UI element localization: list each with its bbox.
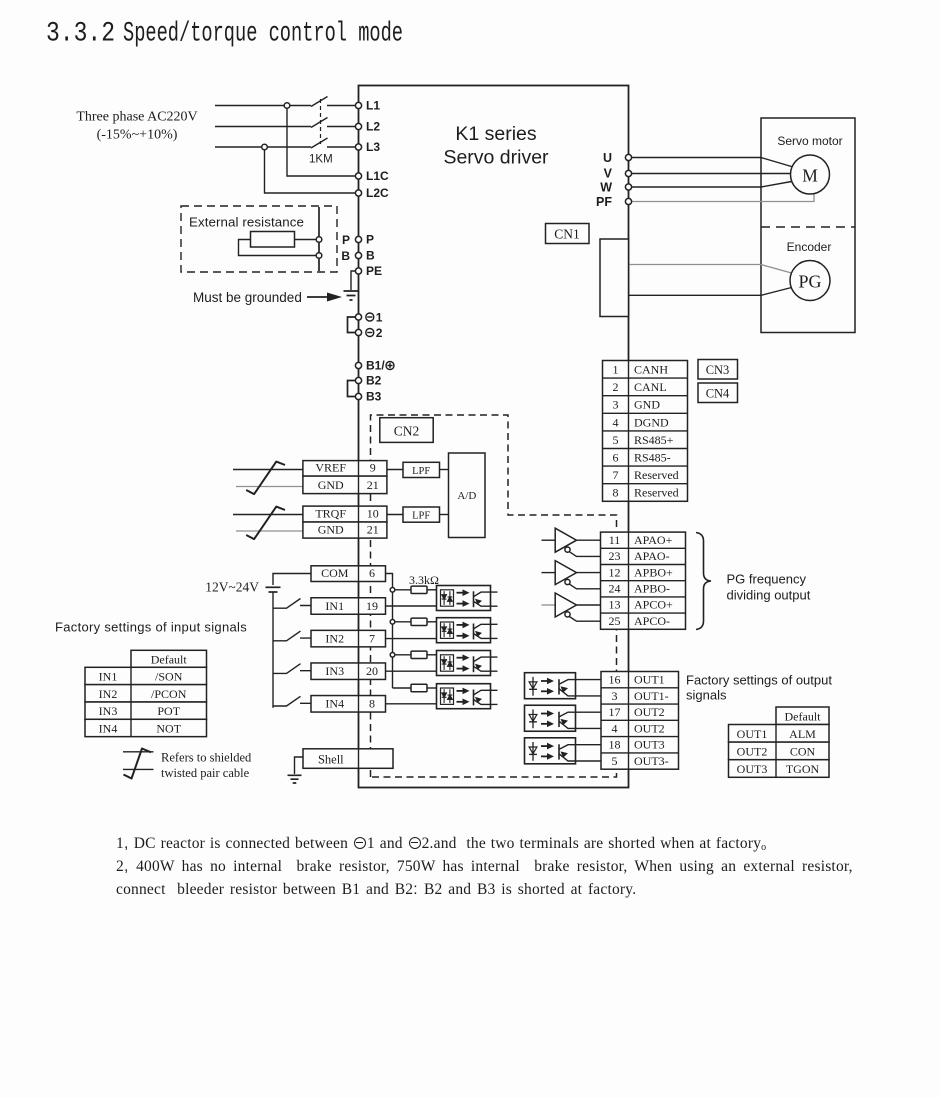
pin row 18 OUT3 <box>601 736 679 738</box>
svg-text:TRQF: TRQF <box>315 507 346 521</box>
wire IN4 to opto <box>386 703 437 705</box>
svg-text:COM: COM <box>321 566 349 580</box>
svg-text:GND: GND <box>318 523 344 537</box>
svg-text:L2: L2 <box>366 120 380 134</box>
svg-text:(-15%~+10%): (-15%~+10%) <box>97 128 178 143</box>
pin row 7 Reserved <box>603 465 688 467</box>
svg-text:CANL: CANL <box>634 380 667 394</box>
pin row Shell <box>303 749 393 769</box>
svg-text:7: 7 <box>369 631 375 645</box>
svg-text:OUT2: OUT2 <box>634 705 665 719</box>
svg-text:OUT1: OUT1 <box>634 673 665 687</box>
pin row IN3 20 <box>311 663 386 680</box>
svg-text:Refers to shielded: Refers to shielded <box>161 751 252 765</box>
A/D converter box <box>449 453 486 538</box>
wire TRQF to LPF2 <box>387 514 403 516</box>
pin row 17 OUT2 <box>601 703 679 705</box>
svg-text:M: M <box>802 166 818 186</box>
COM feed bus right <box>386 574 393 689</box>
svg-text:16: 16 <box>609 673 621 687</box>
svg-text:B: B <box>341 249 350 263</box>
pin row IN4 8 <box>311 696 386 713</box>
wire driver- to pin <box>569 617 600 622</box>
svg-text:21: 21 <box>367 478 379 492</box>
svg-text:IN1: IN1 <box>99 670 118 684</box>
earth ground symbol <box>344 291 359 300</box>
terminal V <box>625 170 631 176</box>
svg-text:DGND: DGND <box>634 415 669 429</box>
svg-text:1KM: 1KM <box>309 154 333 166</box>
wire IN1 to opto <box>386 605 437 607</box>
optocoupler input #4 <box>437 684 491 709</box>
wire to resistor 4 <box>393 687 412 689</box>
svg-text:CANH: CANH <box>634 363 668 377</box>
terminal circle <box>355 236 361 242</box>
terminal W <box>625 184 631 190</box>
servo motor box <box>761 118 855 333</box>
optocoupler input #2 <box>437 618 491 643</box>
junction node on phase R <box>284 103 290 109</box>
svg-text:APAO+: APAO+ <box>634 533 673 547</box>
svg-text:L1C: L1C <box>366 169 389 183</box>
pin row IN1 19 <box>311 598 386 615</box>
wire U phase <box>629 158 792 167</box>
pin row 24 APBO- <box>601 580 686 582</box>
terminal circle <box>355 377 361 383</box>
optocoupler output #2 <box>525 705 576 731</box>
svg-text:V: V <box>604 167 613 181</box>
svg-text:OUT2: OUT2 <box>737 744 768 758</box>
svg-text:NOT: NOT <box>156 722 181 736</box>
svg-text:P: P <box>342 233 350 247</box>
svg-text:OUT2: OUT2 <box>634 721 665 735</box>
svg-text:24: 24 <box>609 582 621 596</box>
default row IN4 NOT <box>85 719 207 736</box>
wire driver+ to pin <box>577 539 601 541</box>
svg-text:12V~24V: 12V~24V <box>205 580 259 595</box>
wire: phase S to contactor <box>215 126 311 128</box>
resistor 3.3k #3 <box>411 651 427 658</box>
pin row 4 DGND <box>603 412 688 414</box>
default row IN3 POT <box>85 702 207 719</box>
svg-text:twisted pair cable: twisted pair cable <box>161 766 250 780</box>
default row OUT2 CON <box>729 742 830 760</box>
divider dashed in motor box <box>761 226 855 228</box>
svg-text:6: 6 <box>613 451 619 465</box>
wires opto3 to pins <box>576 745 602 761</box>
junction node <box>390 588 395 593</box>
svg-text:P: P <box>366 233 374 247</box>
svg-text:10: 10 <box>367 507 379 521</box>
opto output stubs #4 <box>491 690 498 704</box>
terminal circle <box>355 329 361 335</box>
svg-text:6: 6 <box>369 566 375 580</box>
svg-text:CN3: CN3 <box>706 363 730 377</box>
svg-text:18: 18 <box>609 738 621 752</box>
analog input wire TRQF <box>233 514 303 516</box>
svg-text:TGON: TGON <box>786 762 820 776</box>
svg-text:APCO+: APCO+ <box>634 598 673 612</box>
terminal circle <box>355 102 361 108</box>
svg-text:12: 12 <box>609 565 621 579</box>
wire driver- to pin <box>569 584 600 589</box>
wire: resistor left to B terminal <box>239 240 320 256</box>
line driver input wire 3 <box>542 604 556 606</box>
svg-text:Encoder: Encoder <box>787 240 832 254</box>
svg-text:2: 2 <box>613 380 619 394</box>
svg-text:OUT1-: OUT1- <box>634 689 669 703</box>
curly brace PG outputs <box>696 533 711 630</box>
wire to resistor 1 <box>395 589 411 591</box>
legend twisted pair symbol <box>123 752 154 770</box>
default row OUT3 TGON <box>729 760 830 778</box>
terminal circle <box>355 362 361 368</box>
wire resistor to opto 2 <box>427 621 437 623</box>
svg-text:/PCON: /PCON <box>151 687 187 701</box>
svg-text:L3: L3 <box>366 140 380 154</box>
svg-text:/SON: /SON <box>155 670 183 684</box>
supply bus down <box>272 592 274 708</box>
svg-text:ALM: ALM <box>789 727 816 741</box>
LPF box 1 <box>403 462 440 477</box>
svg-text:Speed/torque control mode: Speed/torque control mode <box>123 19 403 50</box>
svg-text:L1: L1 <box>366 99 380 113</box>
svg-text:3.3kΩ: 3.3kΩ <box>409 573 439 587</box>
label circled-plus for B1 <box>386 362 394 370</box>
pin row GND2 21 <box>303 522 387 538</box>
svg-text:U: U <box>603 151 612 165</box>
svg-text:3: 3 <box>612 689 618 703</box>
pin row 2 CANL <box>603 377 688 379</box>
svg-text:PF: PF <box>596 195 612 209</box>
CN2 dashed boundary region <box>371 415 617 777</box>
svg-text:OUT1: OUT1 <box>737 727 768 741</box>
CN1 connector block on edge <box>600 239 629 317</box>
inversion bubble <box>565 547 570 552</box>
pin row 23 APAO- <box>601 547 686 549</box>
terminal circle <box>355 144 361 150</box>
wire resistor to opto 1 <box>427 589 437 591</box>
wire: phase T to contactor <box>215 146 311 148</box>
wire V phase <box>629 173 791 175</box>
svg-text:LPF: LPF <box>412 511 430 522</box>
switch for IN4 <box>273 696 311 706</box>
svg-text:3: 3 <box>613 398 619 412</box>
pin row 8 Reserved <box>603 483 688 485</box>
svg-text:OUT3-: OUT3- <box>634 754 669 768</box>
svg-text:Shell: Shell <box>318 753 344 767</box>
contactor 1KM pole 3 <box>311 138 359 148</box>
pin row 4 OUT2 <box>601 719 679 721</box>
terminal circle <box>355 252 361 258</box>
svg-text:dividing output: dividing output <box>727 588 811 603</box>
input default table header <box>131 650 207 667</box>
wires opto2 to pins <box>576 712 602 728</box>
svg-text:RS485-: RS485- <box>634 451 671 465</box>
arrow to ground <box>307 296 328 298</box>
pin row 12 APBO+ <box>601 564 686 566</box>
optocoupler input #1 <box>437 586 491 611</box>
wire PF (grey) <box>629 194 815 202</box>
svg-text:W: W <box>600 181 612 195</box>
resistor (external bleeder) <box>251 232 295 248</box>
encoder wire bottom <box>629 288 792 296</box>
contactor linkage dashed <box>320 99 322 144</box>
wire driver+ to pin <box>577 572 601 574</box>
svg-text:8: 8 <box>613 486 619 500</box>
inversion bubble <box>565 612 570 617</box>
svg-text:B3: B3 <box>366 390 382 404</box>
earth ground symbol shell <box>288 775 302 783</box>
wire shell to earth <box>295 757 304 774</box>
svg-text:OUT3: OUT3 <box>737 762 768 776</box>
pin row VREF 9 <box>303 461 387 477</box>
node P on link <box>316 237 322 243</box>
svg-text:Servo driver: Servo driver <box>443 147 549 169</box>
pin row COM 6 <box>311 566 386 582</box>
line driver triangle 3 <box>555 593 576 617</box>
svg-text:L2C: L2C <box>366 186 389 200</box>
CN3 box <box>698 360 738 380</box>
svg-text:IN4: IN4 <box>99 722 118 736</box>
svg-text:3.3.2: 3.3.2 <box>46 19 115 50</box>
external resistance dashed box <box>181 206 337 272</box>
pin row 5 OUT3- <box>601 752 679 754</box>
pin row 25 APCO- <box>601 612 686 614</box>
optocoupler output #3 <box>525 738 576 764</box>
svg-text:1: 1 <box>376 311 383 325</box>
opto output stubs #1 <box>491 592 498 606</box>
svg-text:RS485+: RS485+ <box>634 433 674 447</box>
line driver input wire 2 <box>542 572 556 574</box>
wire to resistor 2 <box>395 621 411 623</box>
wire IN3 to opto <box>386 670 437 672</box>
svg-text:13: 13 <box>609 598 621 612</box>
svg-text:B2: B2 <box>366 374 382 388</box>
svg-text:11: 11 <box>609 533 621 547</box>
svg-text:APCO-: APCO- <box>634 614 670 628</box>
wire: L2C tap from phase T <box>265 147 359 193</box>
svg-text:Three phase AC220V: Three phase AC220V <box>76 110 197 125</box>
svg-text:IN4: IN4 <box>325 697 344 711</box>
svg-text:VREF: VREF <box>315 461 346 475</box>
wire W phase <box>629 182 792 188</box>
output default table <box>776 707 829 725</box>
svg-text:9: 9 <box>370 461 376 475</box>
battery symbol <box>266 586 281 588</box>
junction node on phase T <box>262 144 268 150</box>
svg-text:GND: GND <box>634 398 660 412</box>
svg-text:APAO-: APAO- <box>634 549 670 563</box>
default row IN1 /SON <box>85 667 207 684</box>
wire: PE to earth <box>351 271 359 290</box>
default row IN2 /PCON <box>85 685 207 702</box>
jumper bracket theta1-theta2 <box>348 317 356 333</box>
svg-text:5: 5 <box>613 433 619 447</box>
svg-text:20: 20 <box>366 664 378 678</box>
svg-text:POT: POT <box>157 704 180 718</box>
label circled-minus 1 <box>366 313 374 321</box>
resistor 3.3k #2 <box>411 618 427 625</box>
wires opto1 to pins <box>576 680 602 696</box>
svg-text:IN3: IN3 <box>99 704 118 718</box>
analog input wire GND2 (grey) <box>236 530 303 532</box>
wire COM to battery <box>273 574 311 586</box>
svg-text:OUT3: OUT3 <box>634 738 665 752</box>
default row OUT1 ALM <box>729 725 830 743</box>
pin row TRQF 10 <box>303 506 387 522</box>
svg-text:19: 19 <box>366 599 378 613</box>
svg-text:Reserved: Reserved <box>634 468 679 482</box>
pin row 3 OUT1- <box>601 687 679 689</box>
wire resistor to opto 3 <box>427 654 437 656</box>
pin row 13 APCO+ <box>601 596 686 598</box>
svg-text:2: 2 <box>376 326 383 340</box>
svg-text:17: 17 <box>609 705 621 719</box>
wire: resistor right to P terminal <box>295 239 320 241</box>
svg-text:LPF: LPF <box>412 466 430 477</box>
svg-text:PG frequency: PG frequency <box>727 572 807 587</box>
analog input wire VREF <box>233 469 303 471</box>
twisted pair symbol 2 <box>246 507 285 539</box>
pin row 5 RS485+ <box>603 430 688 432</box>
svg-text:Servo motor: Servo motor <box>777 134 842 148</box>
svg-text:21: 21 <box>367 523 379 537</box>
wire LPF2 to A/D <box>440 514 449 516</box>
resistor 3.3k #1 <box>411 586 427 593</box>
node B on link <box>316 253 322 259</box>
switch for IN3 <box>273 664 311 674</box>
switch for IN1 <box>273 599 311 609</box>
svg-text:Must be grounded: Must be grounded <box>193 290 302 305</box>
svg-text:CN2: CN2 <box>394 424 420 439</box>
svg-text:8: 8 <box>369 697 375 711</box>
pin row IN2 7 <box>311 630 386 647</box>
wire: L1C tap from phase R <box>287 106 359 177</box>
svg-text:23: 23 <box>609 549 621 563</box>
svg-text:B: B <box>366 249 375 263</box>
svg-text:PG: PG <box>798 272 821 292</box>
svg-text:7: 7 <box>613 468 619 482</box>
svg-text:Factory settings of input sign: Factory settings of input signals <box>55 620 247 635</box>
label circled-minus 2 <box>366 329 374 337</box>
svg-text:1: 1 <box>613 363 619 377</box>
terminal circle <box>355 123 361 129</box>
terminal circle <box>355 190 361 196</box>
junction node <box>390 620 395 625</box>
svg-text:APBO-: APBO- <box>634 582 670 596</box>
motor circle M <box>791 155 830 194</box>
terminal circle <box>355 173 361 179</box>
svg-text:A/D: A/D <box>457 490 476 502</box>
svg-text:CN1: CN1 <box>554 227 580 242</box>
pin row GND 21 <box>303 476 387 494</box>
svg-text:APBO+: APBO+ <box>634 565 673 579</box>
pin row 3 GND <box>603 395 688 397</box>
junction node <box>390 653 395 658</box>
CN3/CN4 comm table <box>603 361 688 502</box>
svg-text:IN2: IN2 <box>99 687 118 701</box>
CN2 box <box>380 418 433 443</box>
wire resistor to opto 4 <box>427 687 437 689</box>
wire LPF1 to A/D <box>440 469 449 471</box>
svg-text:Reserved: Reserved <box>634 486 679 500</box>
svg-text:CN4: CN4 <box>706 387 730 401</box>
terminal circle <box>355 268 361 274</box>
svg-text:25: 25 <box>609 614 621 628</box>
CN4 box <box>698 383 738 403</box>
encoder circle PG <box>790 261 830 301</box>
contactor 1KM pole 1 <box>311 97 359 107</box>
line driver input wire 1 <box>542 539 556 541</box>
wire driver+ to pin <box>577 604 601 606</box>
svg-text:PE: PE <box>366 264 382 278</box>
OUT pin table <box>601 672 679 770</box>
svg-text:IN1: IN1 <box>325 599 344 613</box>
opto output stubs #2 <box>491 624 498 638</box>
CN1 box <box>546 224 590 244</box>
pin row 6 RS485- <box>603 448 688 450</box>
analog input wire GND (grey) <box>236 486 303 488</box>
PG output table <box>601 532 686 629</box>
optocoupler output #1 <box>525 673 576 699</box>
svg-text:4: 4 <box>612 721 618 735</box>
svg-text:Factory settings of output: Factory settings of output <box>686 673 832 688</box>
svg-text:Default: Default <box>785 710 822 724</box>
wire VREF to LPF <box>387 469 403 471</box>
line driver triangle 1 <box>555 528 576 552</box>
line driver triangle 2 <box>555 561 576 585</box>
jumper bracket B2-B3 <box>348 381 356 397</box>
svg-text:Default: Default <box>151 653 188 667</box>
terminal circle <box>355 314 361 320</box>
inversion bubble <box>565 579 570 584</box>
opto output stubs #3 <box>491 657 498 671</box>
terminal circle <box>355 393 361 399</box>
switch for IN2 <box>273 631 311 641</box>
svg-text:External resistance: External resistance <box>189 215 304 230</box>
LPF box 2 <box>403 507 440 522</box>
svg-text:IN3: IN3 <box>325 664 344 678</box>
twisted pair symbol 1 <box>246 462 285 495</box>
svg-text:5: 5 <box>612 754 618 768</box>
svg-text:signals: signals <box>686 688 727 703</box>
svg-text:GND: GND <box>318 478 344 492</box>
svg-text:B1/: B1/ <box>366 359 385 373</box>
encoder wire top (grey) <box>629 265 792 274</box>
wire to resistor 3 <box>395 654 411 656</box>
contactor 1KM pole 2 <box>311 118 359 128</box>
svg-text:K1 series: K1 series <box>455 123 537 145</box>
terminal U <box>625 154 631 160</box>
wire IN2 to opto <box>386 638 437 640</box>
terminal PF <box>625 198 631 204</box>
wire: phase R to contactor <box>215 105 311 107</box>
wire driver- to pin <box>569 552 600 557</box>
svg-text:CON: CON <box>790 744 816 758</box>
resistor 3.3k #4 <box>411 684 427 691</box>
svg-text:IN2: IN2 <box>325 631 344 645</box>
svg-text:4: 4 <box>613 415 619 429</box>
vertical link bar in resistor box <box>318 207 320 271</box>
K1 servo driver block outline <box>359 86 629 788</box>
optocoupler input #3 <box>437 651 491 676</box>
